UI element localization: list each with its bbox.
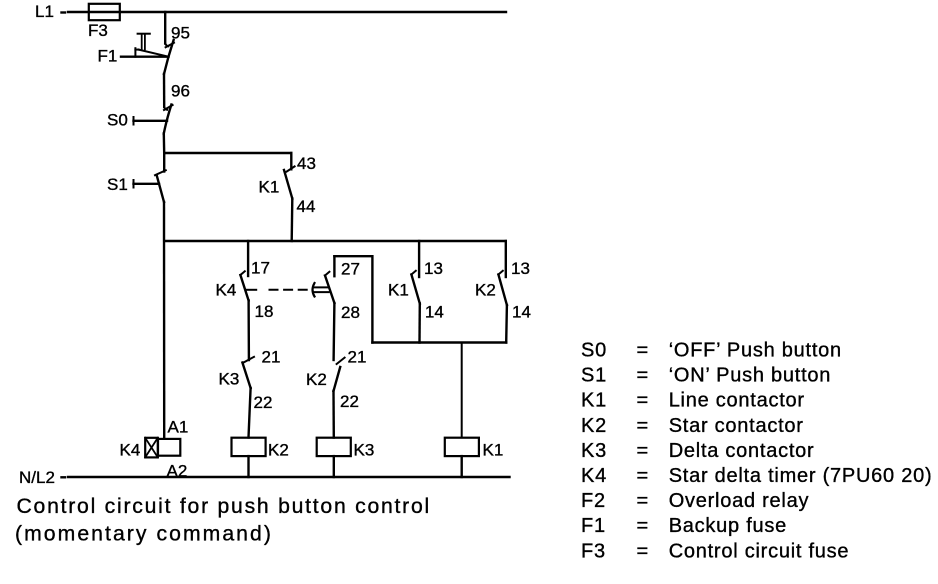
pin label A1 <box>168 418 189 437</box>
label K1 contact <box>388 281 409 300</box>
svg-text:22: 22 <box>340 392 359 411</box>
wire between S0 and junction <box>163 134 166 154</box>
svg-text:K2: K2 <box>268 441 289 460</box>
svg-text:44: 44 <box>297 197 316 216</box>
svg-text:F1: F1 <box>98 47 118 66</box>
contact K2 (13-14 NO) <box>498 271 507 305</box>
svg-text:N/L2: N/L2 <box>19 468 55 487</box>
wire between F1 and S0 <box>163 74 166 107</box>
coil K2 <box>232 438 266 456</box>
wire main vertical S1 to K4 coil <box>163 202 166 438</box>
label K2 contact <box>475 281 496 300</box>
svg-text:22: 22 <box>254 393 273 412</box>
contact K3 (21-22 NO) <box>242 357 254 388</box>
svg-text:Star contactor: Star contactor <box>669 415 804 437</box>
svg-text:=: = <box>637 465 649 487</box>
timer contact K4 (17-18 NO) <box>240 271 248 300</box>
pin label 27 <box>341 260 360 279</box>
svg-text:K2: K2 <box>306 370 327 389</box>
svg-text:Control circuit fuse: Control circuit fuse <box>669 540 850 562</box>
svg-text:13: 13 <box>511 259 530 278</box>
wire N/L2 lead dash <box>62 476 66 478</box>
svg-text:K1: K1 <box>259 178 280 197</box>
pin label 14 (K1) <box>425 303 444 322</box>
wire K1 coil to bottom rail <box>461 456 463 477</box>
wire vertical from top rail to F1 contact <box>164 12 166 44</box>
label K3 coil <box>354 441 375 460</box>
mechanical linkage dashed wire <box>246 289 256 291</box>
label F1 <box>98 47 118 66</box>
contact K1 (43-44 NO) <box>284 166 295 198</box>
svg-text:14: 14 <box>425 303 444 322</box>
legend row F1 <box>581 515 787 537</box>
svg-text:K1: K1 <box>388 281 409 300</box>
label K4 contact <box>216 281 237 300</box>
svg-text:Overload relay: Overload relay <box>669 490 810 512</box>
wire L1 lead dash <box>62 11 66 13</box>
svg-text:17: 17 <box>251 259 270 278</box>
wire K2 coil to bottom rail <box>247 456 249 477</box>
svg-text:21: 21 <box>262 348 281 367</box>
legend row K4 <box>581 465 932 487</box>
svg-text:=: = <box>637 515 649 537</box>
svg-text:K2: K2 <box>581 415 607 437</box>
pin label 18 <box>255 302 274 321</box>
svg-text:14: 14 <box>512 303 531 322</box>
svg-text:=: = <box>637 415 649 437</box>
overload relay contact F1 (95-96) <box>121 34 174 74</box>
pin label 44 <box>297 197 316 216</box>
wire 28 to K2 contact <box>332 303 335 360</box>
svg-text:F1: F1 <box>581 515 606 537</box>
wire K3 coil to bottom rail <box>333 456 335 477</box>
svg-text:(momentary command): (momentary command) <box>15 523 273 546</box>
legend row K2 <box>581 415 804 437</box>
label S0 <box>107 111 128 130</box>
timer coil K4 with flag <box>145 438 180 458</box>
svg-text:95: 95 <box>171 24 190 43</box>
label K2 contact <box>306 370 327 389</box>
contact K1 (13-14 NO) <box>411 271 419 304</box>
node L1 label <box>35 2 54 21</box>
svg-text:Delta contactor: Delta contactor <box>669 440 815 462</box>
contact K2 (21-22 NO) <box>334 358 345 391</box>
svg-text:S0: S0 <box>581 340 607 362</box>
svg-text:=: = <box>637 540 649 562</box>
wire 27 terminal <box>333 256 335 276</box>
wire K1 main contact branch top <box>418 241 420 277</box>
wire K2 contact to K3 coil <box>332 391 335 438</box>
push button S0 (NC) <box>134 105 173 134</box>
wire K2 contact bottom <box>505 305 508 343</box>
wire K1 contact bottom <box>418 304 421 343</box>
wire K4 contact branch top <box>247 241 249 276</box>
svg-text:K3: K3 <box>354 441 375 460</box>
svg-text:K4: K4 <box>216 281 237 300</box>
pin label 14 (K2) <box>512 303 531 322</box>
wire subrail to K1 coil <box>461 343 463 438</box>
label K3 contact <box>219 370 240 389</box>
svg-text:K1: K1 <box>483 441 504 460</box>
legend row K3 <box>581 440 814 462</box>
fuse F3 <box>89 4 120 20</box>
svg-text:S0: S0 <box>107 111 128 130</box>
svg-text:K3: K3 <box>581 440 607 462</box>
svg-text:13: 13 <box>424 259 443 278</box>
pin label 22 (K2) <box>340 392 359 411</box>
legend row S0 <box>581 340 842 362</box>
wire K3 contact to K2 coil <box>249 388 251 438</box>
svg-text:=: = <box>637 390 649 412</box>
legend row K1 <box>581 390 805 412</box>
pin label 13 (K2) <box>511 259 530 278</box>
svg-text:F2: F2 <box>581 490 606 512</box>
svg-text:K4: K4 <box>120 441 141 460</box>
pin label 28 <box>341 303 360 322</box>
label F3 <box>88 21 108 40</box>
svg-text:28: 28 <box>341 303 360 322</box>
svg-text:=: = <box>637 365 649 387</box>
svg-text:43: 43 <box>297 154 316 173</box>
wire K1 branch bottom <box>291 199 294 242</box>
pin label 13 (K1) <box>424 259 443 278</box>
svg-text:S1: S1 <box>581 365 607 387</box>
svg-text:Line contactor: Line contactor <box>669 390 805 412</box>
legend row S1 <box>581 365 831 387</box>
pin label 21 (K3) <box>262 348 281 367</box>
svg-text:F3: F3 <box>581 540 606 562</box>
pin label 96 <box>171 82 190 101</box>
svg-text:27: 27 <box>341 260 360 279</box>
wire rail to K1 aux branch <box>164 152 291 154</box>
coil K1 <box>445 438 479 456</box>
svg-text:K3: K3 <box>219 370 240 389</box>
legend row F3 <box>581 540 849 562</box>
pin label 43 <box>297 154 316 173</box>
svg-text:=: = <box>637 340 649 362</box>
label K4 coil <box>120 441 141 460</box>
label K1 coil <box>483 441 504 460</box>
linkage coupler arrowhead <box>313 283 329 297</box>
svg-text:‘OFF’ Push button: ‘OFF’ Push button <box>669 340 842 362</box>
wire top rail L1 <box>68 11 506 13</box>
label K2 coil <box>268 441 289 460</box>
svg-text:96: 96 <box>171 82 190 101</box>
svg-text:K2: K2 <box>475 281 496 300</box>
wire 18 to K3 contact <box>247 301 250 361</box>
pin label 17 <box>251 259 270 278</box>
wire jog from 27 contact to lower subrail <box>334 256 372 342</box>
wire K2 main contact branch top corner <box>505 241 507 277</box>
legend row F2 <box>581 490 809 512</box>
timer contact K4 delayed (27-28 NO) <box>325 272 334 303</box>
svg-text:F3: F3 <box>88 21 108 40</box>
pin label 21 (K2) <box>348 348 367 367</box>
coil K3 <box>317 438 351 456</box>
pin label A2 <box>167 462 188 481</box>
wire bottom rail N/L2 <box>68 476 510 478</box>
svg-text:‘ON’ Push button: ‘ON’ Push button <box>669 365 831 387</box>
svg-text:K1: K1 <box>581 390 607 412</box>
wire K1 branch top <box>290 153 292 169</box>
wire lower subrail <box>372 341 506 343</box>
svg-text:21: 21 <box>348 348 367 367</box>
svg-text:Star delta timer (7PU60 20): Star delta timer (7PU60 20) <box>669 465 933 487</box>
svg-text:18: 18 <box>255 302 274 321</box>
svg-text:Control circuit for push butto: Control circuit for push button control <box>17 495 431 518</box>
push button S1 (NO) <box>134 154 166 203</box>
pin label 95 <box>171 24 190 43</box>
svg-text:A1: A1 <box>168 418 189 437</box>
wire second rail <box>164 240 506 242</box>
svg-text:Backup fuse: Backup fuse <box>669 515 787 537</box>
label S1 <box>107 175 128 194</box>
svg-text:K4: K4 <box>581 465 607 487</box>
svg-text:S1: S1 <box>107 175 128 194</box>
svg-text:=: = <box>637 490 649 512</box>
label K1 aux <box>259 178 280 197</box>
node N/L2 label <box>19 468 55 487</box>
svg-text:=: = <box>637 440 649 462</box>
pin label 22 (K3) <box>254 393 273 412</box>
svg-text:L1: L1 <box>35 2 54 21</box>
